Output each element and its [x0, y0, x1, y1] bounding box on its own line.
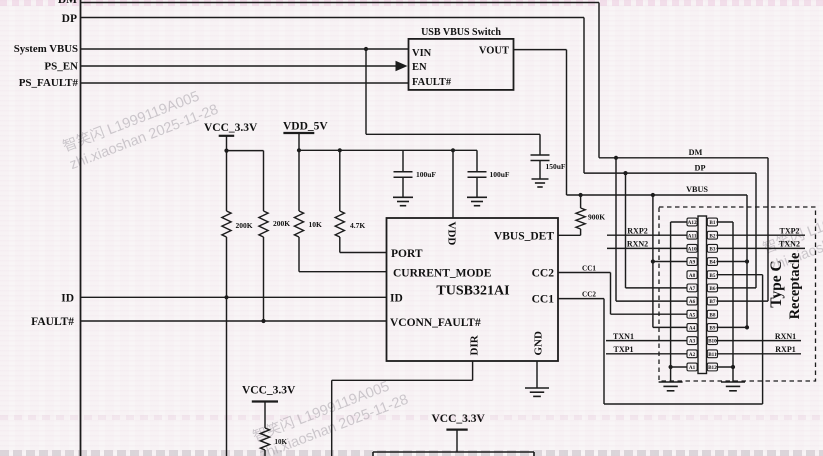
svg-text:VBUS: VBUS	[686, 185, 708, 194]
svg-text:200K: 200K	[273, 219, 290, 228]
svg-text:10K: 10K	[309, 220, 323, 229]
svg-text:Type C: Type C	[768, 260, 785, 308]
svg-text:RXN2: RXN2	[627, 240, 648, 249]
svg-text:B1: B1	[709, 220, 715, 226]
svg-text:B5: B5	[709, 273, 715, 279]
svg-text:B2: B2	[709, 233, 715, 239]
svg-text:DIR: DIR	[469, 334, 481, 355]
svg-text:A12: A12	[688, 220, 697, 226]
svg-text:DM: DM	[689, 148, 703, 157]
svg-text:USB VBUS Switch: USB VBUS Switch	[421, 27, 501, 38]
svg-text:RXN1: RXN1	[775, 332, 796, 341]
svg-text:TUSB321AI: TUSB321AI	[436, 284, 509, 299]
svg-text:100uF: 100uF	[416, 170, 436, 179]
svg-text:VDD: VDD	[446, 222, 458, 246]
svg-text:System VBUS: System VBUS	[14, 43, 78, 55]
svg-text:VBUS_DET: VBUS_DET	[494, 231, 554, 243]
svg-text:B4: B4	[709, 260, 715, 266]
svg-text:150uF: 150uF	[546, 162, 566, 171]
svg-text:B11: B11	[708, 352, 717, 358]
svg-text:GND: GND	[533, 331, 545, 356]
svg-text:CC2: CC2	[532, 268, 555, 280]
svg-text:A10: A10	[688, 246, 697, 252]
svg-text:CC1: CC1	[532, 294, 555, 306]
svg-text:B12: B12	[708, 365, 717, 371]
svg-text:VIN: VIN	[412, 48, 432, 59]
svg-text:10K: 10K	[275, 438, 288, 446]
svg-text:CC1: CC1	[582, 265, 596, 273]
svg-text:A3: A3	[689, 339, 696, 345]
svg-text:4.7K: 4.7K	[350, 221, 365, 230]
svg-text:200K: 200K	[236, 221, 253, 230]
svg-text:RXP2: RXP2	[627, 227, 647, 236]
svg-text:TXN1: TXN1	[613, 332, 634, 341]
svg-text:VOUT: VOUT	[479, 46, 509, 57]
svg-text:VCC_3.3V: VCC_3.3V	[432, 413, 486, 425]
svg-text:B7: B7	[709, 299, 715, 305]
svg-text:FAULT#: FAULT#	[31, 316, 74, 328]
svg-text:EN: EN	[412, 62, 427, 73]
svg-text:B10: B10	[708, 339, 717, 345]
svg-text:900K: 900K	[588, 213, 605, 222]
svg-text:TXP2: TXP2	[780, 227, 800, 236]
svg-text:B6: B6	[709, 286, 715, 292]
svg-text:A5: A5	[689, 312, 696, 318]
svg-text:TXN2: TXN2	[779, 240, 800, 249]
svg-text:A1: A1	[689, 365, 696, 371]
svg-text:ID: ID	[61, 293, 74, 305]
svg-text:B9: B9	[709, 326, 715, 332]
svg-text:A2: A2	[689, 352, 696, 358]
svg-text:A11: A11	[688, 233, 697, 239]
svg-text:CURRENT_MODE: CURRENT_MODE	[393, 268, 492, 280]
svg-text:CC2: CC2	[582, 291, 596, 299]
svg-text:VCONN_FAULT#: VCONN_FAULT#	[390, 317, 481, 329]
svg-text:DM: DM	[58, 0, 77, 6]
svg-text:A4: A4	[689, 326, 696, 332]
svg-text:RXP1: RXP1	[775, 345, 795, 354]
svg-text:A7: A7	[689, 286, 696, 292]
svg-text:ID: ID	[390, 293, 403, 305]
svg-text:DP: DP	[62, 13, 77, 25]
svg-text:VDD_5V: VDD_5V	[283, 121, 328, 133]
svg-text:FAULT#: FAULT#	[412, 77, 452, 88]
svg-text:B8: B8	[709, 312, 715, 318]
svg-text:PS_EN: PS_EN	[44, 61, 78, 73]
svg-text:Receptacle: Receptacle	[787, 252, 803, 319]
svg-text:VCC_3.3V: VCC_3.3V	[242, 385, 296, 397]
svg-text:PS_FAULT#: PS_FAULT#	[19, 77, 79, 89]
svg-text:PORT: PORT	[391, 248, 423, 260]
svg-text:A9: A9	[689, 260, 696, 266]
svg-text:B3: B3	[709, 246, 715, 252]
svg-text:VCC_3.3V: VCC_3.3V	[204, 122, 258, 134]
svg-text:100uF: 100uF	[490, 170, 510, 179]
svg-text:DP: DP	[695, 163, 706, 172]
svg-text:TXP1: TXP1	[614, 345, 634, 354]
svg-text:A6: A6	[689, 299, 696, 305]
svg-text:A8: A8	[689, 273, 696, 279]
